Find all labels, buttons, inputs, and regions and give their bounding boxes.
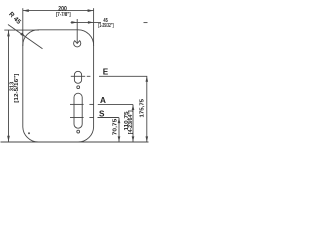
svg-text:[1-25/32"]: [1-25/32"]: [98, 23, 113, 29]
svg-text:S: S: [99, 110, 105, 119]
keyhole centerline: [76, 19, 78, 43]
dimension 70,75 line: [118, 118, 121, 142]
S centerline: [70, 117, 119, 119]
plate outline: [23, 30, 94, 142]
svg-text:70,75: 70,75: [113, 119, 119, 136]
svg-text:R 45: R 45: [7, 11, 22, 26]
small circle under E slot: [77, 86, 80, 89]
svg-text:[4-23/64"]: [4-23/64"]: [128, 110, 134, 134]
dimension 200 line: [23, 8, 94, 46]
big slot (stadium): [74, 93, 82, 128]
bottom extension line: [1, 141, 149, 143]
small circle under big slot: [77, 130, 80, 133]
A centerline: [70, 103, 133, 105]
R45 leader: [8, 25, 43, 49]
svg-text:[7-7/8"]: [7-7/8"]: [56, 12, 71, 18]
svg-text:A: A: [100, 96, 106, 105]
svg-text:E: E: [103, 67, 109, 76]
dimension 110,75 line: [132, 105, 135, 142]
E centerline: [71, 75, 147, 77]
dimension 45 line: [71, 21, 101, 24]
stray dash top right: [144, 22, 148, 24]
svg-text:175,75: 175,75: [139, 99, 145, 118]
keyhole (cylinder hole with notch): [74, 41, 81, 47]
small hole bottom-left: [28, 132, 30, 134]
dimension 175,75 line: [146, 76, 149, 142]
svg-text:[12-5/16"]: [12-5/16"]: [14, 73, 20, 102]
dimension 313 line: [4, 30, 39, 142]
E slot (stadium): [74, 71, 81, 83]
